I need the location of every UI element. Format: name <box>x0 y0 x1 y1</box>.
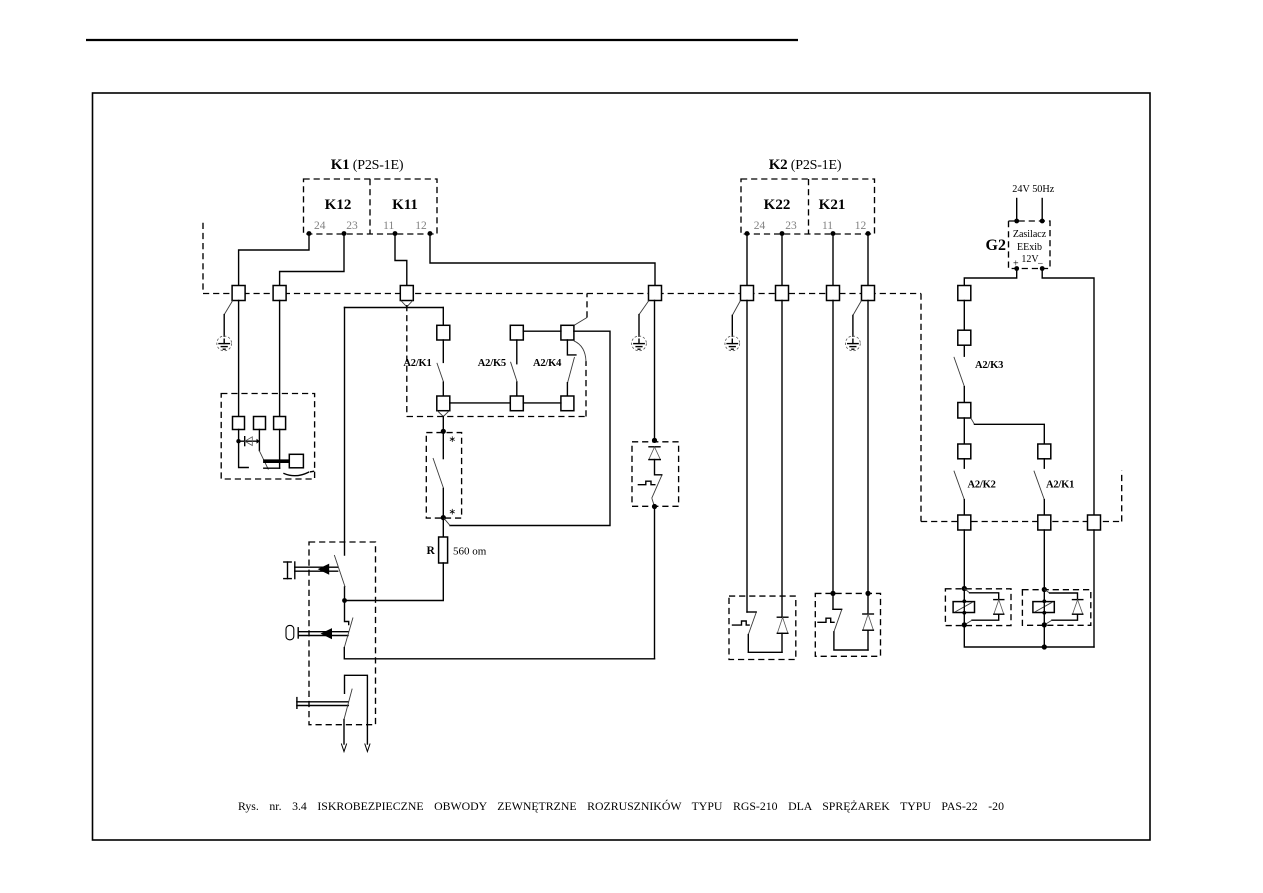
dashed bus left stub <box>202 223 204 294</box>
wire left branch down to stop button <box>344 308 346 556</box>
K1 pin 24 node <box>307 231 312 236</box>
wire K2 pin12 down <box>867 234 869 286</box>
K21 blade lead <box>834 632 868 650</box>
wire suppressor down to start rail <box>654 507 656 659</box>
diode D1 in sensor <box>239 437 260 446</box>
node above pressure switch <box>441 429 446 434</box>
contact A2/K2 lower stub <box>963 500 965 515</box>
dashed bus end stub up <box>1121 471 1123 522</box>
svg-text:K12: K12 <box>325 197 352 213</box>
svg-text:24V 50Hz: 24V 50Hz <box>1012 184 1054 195</box>
wire 24V feed right <box>1041 199 1043 222</box>
K2 pin 23 node <box>780 231 785 236</box>
wire bottom rail of contact group <box>450 402 561 404</box>
svg-text:∗: ∗ <box>449 507 457 517</box>
wire start button down and right <box>344 648 654 659</box>
contact group boundary curve lower <box>574 341 586 362</box>
svg-text:EExib: EExib <box>1017 242 1042 253</box>
node relay A2-2 top <box>1042 587 1047 592</box>
relay A2-2 diode <box>1073 600 1083 615</box>
svg-text:11: 11 <box>383 220 394 232</box>
relay A2-1 dashed outline <box>945 589 1011 626</box>
K22 diode lead <box>781 633 783 652</box>
svg-text:K1 (P2S-1E): K1 (P2S-1E) <box>331 157 404 173</box>
svg-text:A2/K2: A2/K2 <box>968 480 996 491</box>
svg-text:R: R <box>427 545 436 557</box>
node rail junction <box>1042 644 1047 649</box>
relay K1 dashed outline <box>304 179 438 234</box>
node supply in - <box>1040 219 1045 224</box>
wire K1 pin23 to connector <box>280 234 344 286</box>
ground 4 <box>846 336 861 351</box>
suppressor blade <box>652 475 662 498</box>
contact A2/K3 upper terminal <box>958 330 971 345</box>
node relay A2-1 top <box>962 586 967 591</box>
contact A2/K4 lower terminal <box>561 396 574 411</box>
contact A2/K3 lower terminal <box>958 403 971 419</box>
K1 pin 12 node <box>428 231 433 236</box>
bus connector square 7 <box>827 286 840 301</box>
node K21 feed left <box>830 591 835 596</box>
contact A2/K3 fixed stub <box>963 345 965 356</box>
K21 armature step <box>818 618 834 622</box>
K22 blade <box>748 612 756 634</box>
wire K1 pin11 to connector <box>395 234 407 286</box>
contact A2/K1 upper terminal <box>437 325 450 340</box>
relay A2-2 diode branch <box>1050 593 1078 600</box>
wire connector1 down to sensor box <box>238 301 240 417</box>
splice marks under A2/K1 lower terminal <box>437 411 449 417</box>
relay K22 dashed outline <box>729 596 796 659</box>
contact A2/K5 blade <box>511 362 518 382</box>
bus connector square 5 <box>741 286 754 301</box>
svg-text:Rys. nr. 3.4 ISKROBEZPIECZNE: Rys. nr. 3.4 ISKROBEZPIECZNE OBWODY ZEWN… <box>238 799 1004 813</box>
node G2 + <box>1014 266 1019 271</box>
ground 1 <box>217 336 232 351</box>
suppressor armature step <box>638 481 654 485</box>
wire to ground 2 <box>638 315 640 337</box>
wire B down to relay A2-2 <box>1043 530 1045 590</box>
splice mark under connector 5 <box>732 301 740 316</box>
wire connector4 down to suppressor box <box>654 301 656 441</box>
relay A2-2 coil wire <box>1043 590 1045 625</box>
splice branch to A2/K1 <box>971 418 975 424</box>
svg-text:A2/K4: A2/K4 <box>533 358 562 369</box>
wire to ground 3 <box>731 315 733 336</box>
wire C down to rail <box>1093 530 1095 647</box>
wire K21 coil feeds down <box>833 301 868 615</box>
bus connector square 1 <box>232 286 245 301</box>
pushbutton station dashed outline <box>309 542 376 725</box>
relay A2-2 diode branch bottom <box>1052 614 1078 620</box>
contact A2/K2 upper terminal <box>958 444 971 459</box>
svg-text:∗: ∗ <box>449 434 457 444</box>
wire connector2 down to sensor box <box>279 301 281 417</box>
svg-text:12: 12 <box>855 220 867 232</box>
wire K2 pin23 down <box>781 234 783 286</box>
relay A2-2 diode branch top <box>1044 590 1049 594</box>
node below suppressor <box>652 504 657 509</box>
K22 blade lead <box>748 635 782 653</box>
splice mark under connector 4 <box>639 301 649 315</box>
wire junction diag to loop <box>443 518 450 526</box>
wire 24V feed left <box>1016 199 1018 222</box>
K2 pin 24 node <box>745 231 750 236</box>
node sensor diode left <box>236 439 240 443</box>
sensor contact blade <box>259 450 268 469</box>
svg-text:23: 23 <box>785 220 797 232</box>
svg-text:A2/K5: A2/K5 <box>478 358 506 369</box>
pressure switch blade <box>433 458 444 489</box>
contact A2/K1b fixed stub <box>1043 459 1045 468</box>
top rule <box>86 39 798 41</box>
lower connector square A <box>958 515 971 530</box>
node below pressure switch <box>441 515 446 520</box>
contact A2/K5 lower stub <box>516 382 518 396</box>
contact group dashed boundary bottom <box>407 416 586 418</box>
ground 3 <box>725 336 740 351</box>
splice mark under connector 1 <box>224 301 233 315</box>
node junction below stop button <box>342 598 347 603</box>
bus connector square 2 <box>273 286 286 301</box>
start button blade <box>344 618 353 648</box>
wire K1 pin24 to connector <box>239 234 309 286</box>
K21 diode <box>863 614 874 630</box>
relay A2-1 diode diag bottom <box>964 620 972 625</box>
wire down to resistor <box>442 518 444 537</box>
resistor R body <box>439 537 448 563</box>
wire A2/K1 lower terminal down <box>442 417 444 432</box>
svg-text:G2: G2 <box>986 237 1006 254</box>
suppressor box dashed outline <box>632 442 679 507</box>
limit switch blade <box>344 689 352 720</box>
contact A2/K2 blade <box>954 471 964 500</box>
bus connector square 8 <box>862 286 875 301</box>
K2 pin 12 node <box>866 231 871 236</box>
sensor capillary arc <box>284 472 309 476</box>
node supply in + <box>1014 219 1019 224</box>
relay K2 dashed outline <box>741 179 875 234</box>
stop button actuator <box>284 562 338 579</box>
sensor terminal square 1 <box>233 417 245 430</box>
node above suppressor <box>652 438 657 443</box>
node K21 feed right <box>865 591 870 596</box>
relay A2-1 diode branch <box>970 593 999 600</box>
wire K1 pin12 to connector <box>430 234 655 286</box>
wire sensor left leg <box>239 430 249 468</box>
sensor capillary dash <box>311 470 314 473</box>
wire A2/K4 top to right riser <box>450 331 610 525</box>
suppressor blade to node <box>652 498 655 506</box>
wire sensor right leg <box>279 430 281 469</box>
ground 2 <box>632 336 647 351</box>
K21 armature jog <box>833 608 842 610</box>
svg-text:11: 11 <box>822 220 833 232</box>
start button actuator <box>286 625 348 639</box>
contact A2/K3 lower stub <box>963 387 965 403</box>
relay A2-1 diode branch bottom <box>972 614 999 620</box>
contact A2/K3 blade <box>954 357 965 387</box>
svg-text:A2/K1: A2/K1 <box>1046 480 1074 491</box>
pressure switch dashed outline <box>426 433 461 518</box>
K1 pin 23 node <box>342 231 347 236</box>
node relay A2-1 bottom <box>962 622 967 627</box>
K22 armature step <box>733 621 750 625</box>
contact A2/K1b upper terminal <box>1038 444 1051 459</box>
dashed bus bottom horizontal <box>921 521 1122 523</box>
svg-text:K21: K21 <box>819 197 846 213</box>
wire K2 pin24 down <box>746 234 748 286</box>
wire A down to relay A2-1 <box>963 530 965 589</box>
wire to ground 4 <box>852 315 854 336</box>
contact group dashed boundary left <box>406 305 408 417</box>
sensor terminal square 3 <box>274 417 286 430</box>
sensor thin bottom line <box>264 467 280 469</box>
K21 blade <box>834 610 842 632</box>
power supply G2 dashed outline <box>1009 221 1051 269</box>
contact A2/K5 fixed stub <box>516 340 518 364</box>
contact A2/K1 fixed stub <box>442 340 444 362</box>
sensor unit dashed outline <box>221 394 314 480</box>
contact A2/K2 fixed stub <box>963 459 965 468</box>
svg-text:24: 24 <box>314 220 326 232</box>
limit switch bridge <box>345 675 368 744</box>
node relay A2-2 coil top <box>1042 599 1046 603</box>
contact A2/K4 lower stub <box>566 383 568 396</box>
relay K21 dashed outline <box>815 593 880 656</box>
dashed bus horizontal <box>203 293 921 295</box>
svg-text:Zasilacz: Zasilacz <box>1013 229 1047 240</box>
suppressor wire to armature <box>655 460 662 475</box>
node G2 - <box>1040 266 1045 271</box>
K2 divider <box>808 179 810 234</box>
svg-text:K22: K22 <box>764 197 791 213</box>
drawing border frame <box>93 93 1151 840</box>
wire G2 + to bus connector <box>964 269 1016 286</box>
contact group dashed boundary right <box>585 361 587 417</box>
wire top of A2/K5 to A2/K4 <box>523 330 561 332</box>
wire sensor middle leg <box>258 430 260 451</box>
wire right branch down to contact A2/K1 <box>442 308 444 326</box>
splice marks under connector 3 <box>401 301 413 307</box>
wire K2 pin11 down <box>832 234 834 286</box>
contact A2/K1 blade <box>437 363 444 382</box>
lead arrow right <box>365 744 370 752</box>
wire K22 coil feeds down <box>747 301 782 618</box>
relay A2-1 coil <box>953 602 974 613</box>
svg-text:23: 23 <box>346 220 358 232</box>
pressure switch fixed stub <box>442 431 444 458</box>
wire resistor to junction <box>345 563 444 601</box>
stop button blade <box>334 555 345 587</box>
wire to ground 1 <box>223 315 225 337</box>
limit switch actuator <box>297 698 348 709</box>
lower connector square C <box>1088 515 1101 530</box>
svg-text:K2 (P2S-1E): K2 (P2S-1E) <box>769 157 842 173</box>
contact A2/K4 blade <box>568 357 575 383</box>
node relay A2-2 bottom <box>1042 622 1047 627</box>
limit switch left lead <box>343 720 345 745</box>
bus connector square 4 <box>649 286 662 301</box>
svg-text:A2/K1: A2/K1 <box>403 358 431 369</box>
bus connector square 9 <box>958 286 971 301</box>
wire under connector 3 horizontal <box>345 307 444 309</box>
relay A2-1 diode <box>994 600 1004 615</box>
contact A2/K4 fixed hook <box>567 340 576 355</box>
sensor bulb square <box>289 454 303 468</box>
K1 pin 11 node <box>393 231 398 236</box>
K21 diode lead <box>867 630 869 650</box>
wire bus connector 9 down <box>963 301 965 331</box>
wire branch over to A2/K1 <box>975 424 1045 444</box>
svg-text:560 om: 560 om <box>453 546 487 558</box>
contact A2/K5 upper terminal <box>510 325 523 340</box>
pressure switch lower stub <box>442 489 444 518</box>
lead arrow left <box>341 744 346 752</box>
contact A2/K1b blade <box>1034 471 1044 500</box>
wire bottom rail <box>964 625 1094 647</box>
K1 divider <box>369 179 371 234</box>
wire stop button to junction <box>344 587 346 601</box>
svg-text:K11: K11 <box>392 197 418 213</box>
wire relay A2-2 to rail <box>1043 625 1045 647</box>
relay A2-2 coil <box>1033 602 1054 613</box>
contact A2/K1b lower stub <box>1043 500 1045 515</box>
bus connector square 3 <box>400 286 413 301</box>
contact A2/K1 lower terminal <box>437 396 450 411</box>
relay A2-1 coil wire <box>963 589 965 625</box>
relay A2-2 diode diag bottom <box>1044 620 1052 625</box>
svg-text:12: 12 <box>415 220 427 232</box>
contact group boundary diag upper <box>574 318 587 326</box>
splice mark under connector 8 <box>853 301 862 316</box>
svg-text:24: 24 <box>754 220 766 232</box>
contact A2/K4 upper terminal <box>561 325 574 340</box>
svg-text:A2/K3: A2/K3 <box>975 360 1003 371</box>
relay A2-1 diode branch top <box>964 589 969 593</box>
relay A2-2 dashed outline <box>1022 590 1090 626</box>
node relay A2-2 coil bottom <box>1042 611 1046 615</box>
K22 armature jog <box>747 611 756 613</box>
wire junction to start fixed contact <box>345 601 349 625</box>
K22 diode <box>777 617 788 633</box>
node relay A2-1 coil bottom <box>962 611 966 615</box>
sensor thick bar <box>263 459 289 463</box>
wire G2 - down right side <box>1042 269 1094 516</box>
wire A2/K3 down to A2/K2 <box>963 418 965 444</box>
suppressor diode <box>649 447 660 460</box>
dashed bus right vertical <box>920 294 922 522</box>
K2 pin 11 node <box>831 231 836 236</box>
contact group dashed stub to bus <box>586 294 588 318</box>
contact A2/K5 lower terminal <box>510 396 523 411</box>
lower connector square B <box>1038 515 1051 530</box>
contact A2/K1 lower stub <box>442 382 444 396</box>
bus connector square 6 <box>776 286 789 301</box>
node relay A2-1 coil top <box>962 599 966 603</box>
sensor terminal square 2 <box>254 417 266 430</box>
